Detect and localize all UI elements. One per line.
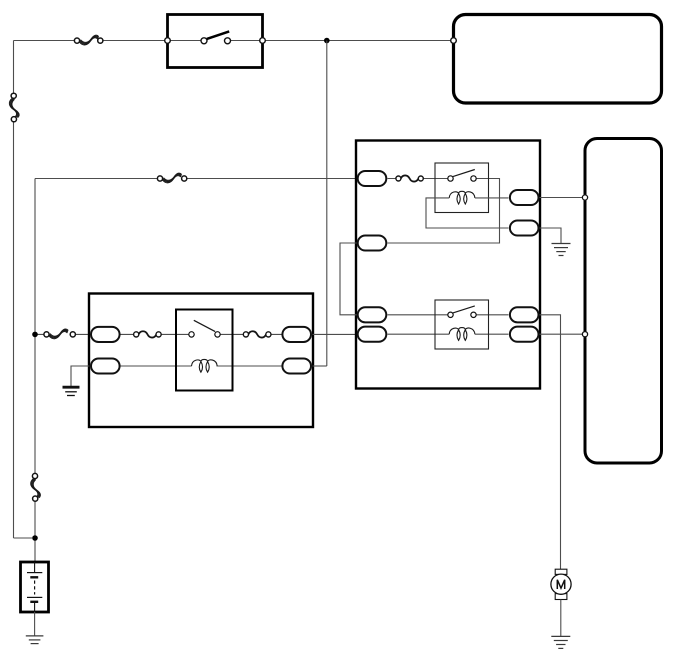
motor M1 body	[551, 574, 571, 594]
switch SW1 contacts	[201, 38, 231, 44]
coil resistor squiggle S3	[401, 175, 419, 181]
wire top feed	[14, 40, 454, 42]
fusible link F4 (vertical, top-left riser)	[9, 98, 19, 117]
motor M1 caps	[555, 569, 567, 574]
connector pill M2 left A	[358, 171, 387, 186]
component U1 terminal	[451, 38, 457, 44]
relay RY3 box	[435, 300, 489, 349]
connector pill M1 left lower	[91, 358, 120, 373]
battery B1 box	[21, 562, 49, 612]
node B junction dot	[32, 332, 38, 338]
connector pill M2 right B	[510, 220, 539, 235]
relay RY1 coil	[192, 359, 218, 372]
control unit box M1	[89, 294, 313, 428]
wire second riser x35	[34, 179, 36, 563]
wire M1 coil feed corner	[313, 365, 327, 367]
connector pill M2 right D	[510, 327, 539, 342]
switch SW1 blade	[207, 31, 229, 39]
component U1 (top-right rounded box)	[454, 15, 662, 104]
wire M2 coil to ground	[540, 228, 562, 244]
connector pill M2 left C	[358, 307, 387, 322]
ground G4	[26, 636, 44, 644]
coil resistor squiggle S2	[248, 331, 266, 337]
wire from node A down to relay coil feed	[326, 41, 328, 367]
connector pill M2 left D	[358, 327, 387, 342]
wire M2 to component U2 upper	[540, 197, 585, 199]
component U2 terminal lower	[582, 332, 587, 337]
jumper wire P_B to P_C	[340, 243, 358, 315]
fusible link F2 (y178.5 wire)	[163, 173, 182, 183]
fusible link F1 (top wire)	[80, 35, 99, 45]
wire M1 output to M2	[313, 333, 361, 335]
switch box SW1	[168, 15, 263, 68]
box M2 wire row1 y178.5	[388, 179, 500, 244]
ground G2	[552, 244, 571, 256]
wire horn feed y178.5	[35, 178, 360, 180]
box M2 wire row4 y334.2	[388, 333, 509, 335]
motor M1 label	[557, 580, 564, 589]
coil resistor squiggle S1	[139, 331, 157, 337]
relay RY3 coil	[449, 328, 475, 341]
connector pill M2 right A	[510, 190, 539, 205]
wire motor to ground	[560, 600, 562, 637]
relay RY3 contacts	[448, 312, 476, 317]
wire M2 to component U2 lower	[540, 333, 585, 335]
node C junction dot (battery tee)	[32, 535, 38, 541]
control unit box M2	[356, 141, 540, 389]
connector pill M1 right lower	[282, 358, 311, 373]
fusible link F3 (y334.4 wire)	[49, 329, 68, 339]
connector pill M2 right C	[510, 307, 539, 322]
ground G3	[551, 636, 570, 648]
wire battery positive left riser	[14, 41, 33, 539]
component U2 (right tall rounded box)	[585, 139, 662, 464]
ground G1 (thick bar)	[63, 387, 80, 395]
wire feed to left box	[35, 333, 92, 335]
relay RY1 blade	[194, 320, 215, 331]
component U2 terminal upper	[582, 195, 587, 200]
relay RY2 contacts	[448, 176, 476, 181]
relay RY1 contacts	[189, 332, 220, 337]
relay RY2 coil leads	[426, 198, 509, 228]
relay RY2 blade	[453, 170, 475, 177]
connector pill M1 left upper	[91, 327, 120, 342]
box M2 wire row3 y314.8	[388, 314, 509, 316]
wire battery to ground	[34, 612, 36, 636]
box M1 internal wire (coil row)	[121, 365, 284, 367]
relay RY2 box	[435, 163, 489, 213]
wire ground branch from M1	[71, 366, 90, 386]
relay RY3 blade	[453, 306, 475, 313]
fusible link F5 (vertical, lower riser)	[31, 479, 41, 498]
connector pill M1 right upper	[282, 327, 311, 342]
relay RY2 coil	[449, 191, 475, 204]
connector pill M2 left B	[358, 235, 387, 250]
wire M2 to motor	[540, 315, 561, 569]
switch box SW1 terminals	[165, 38, 266, 44]
box M1 internal wire (switch row)	[121, 333, 284, 335]
relay RY1 box	[176, 310, 233, 391]
battery B1 internals	[27, 562, 42, 612]
node A junction dot	[324, 38, 330, 44]
